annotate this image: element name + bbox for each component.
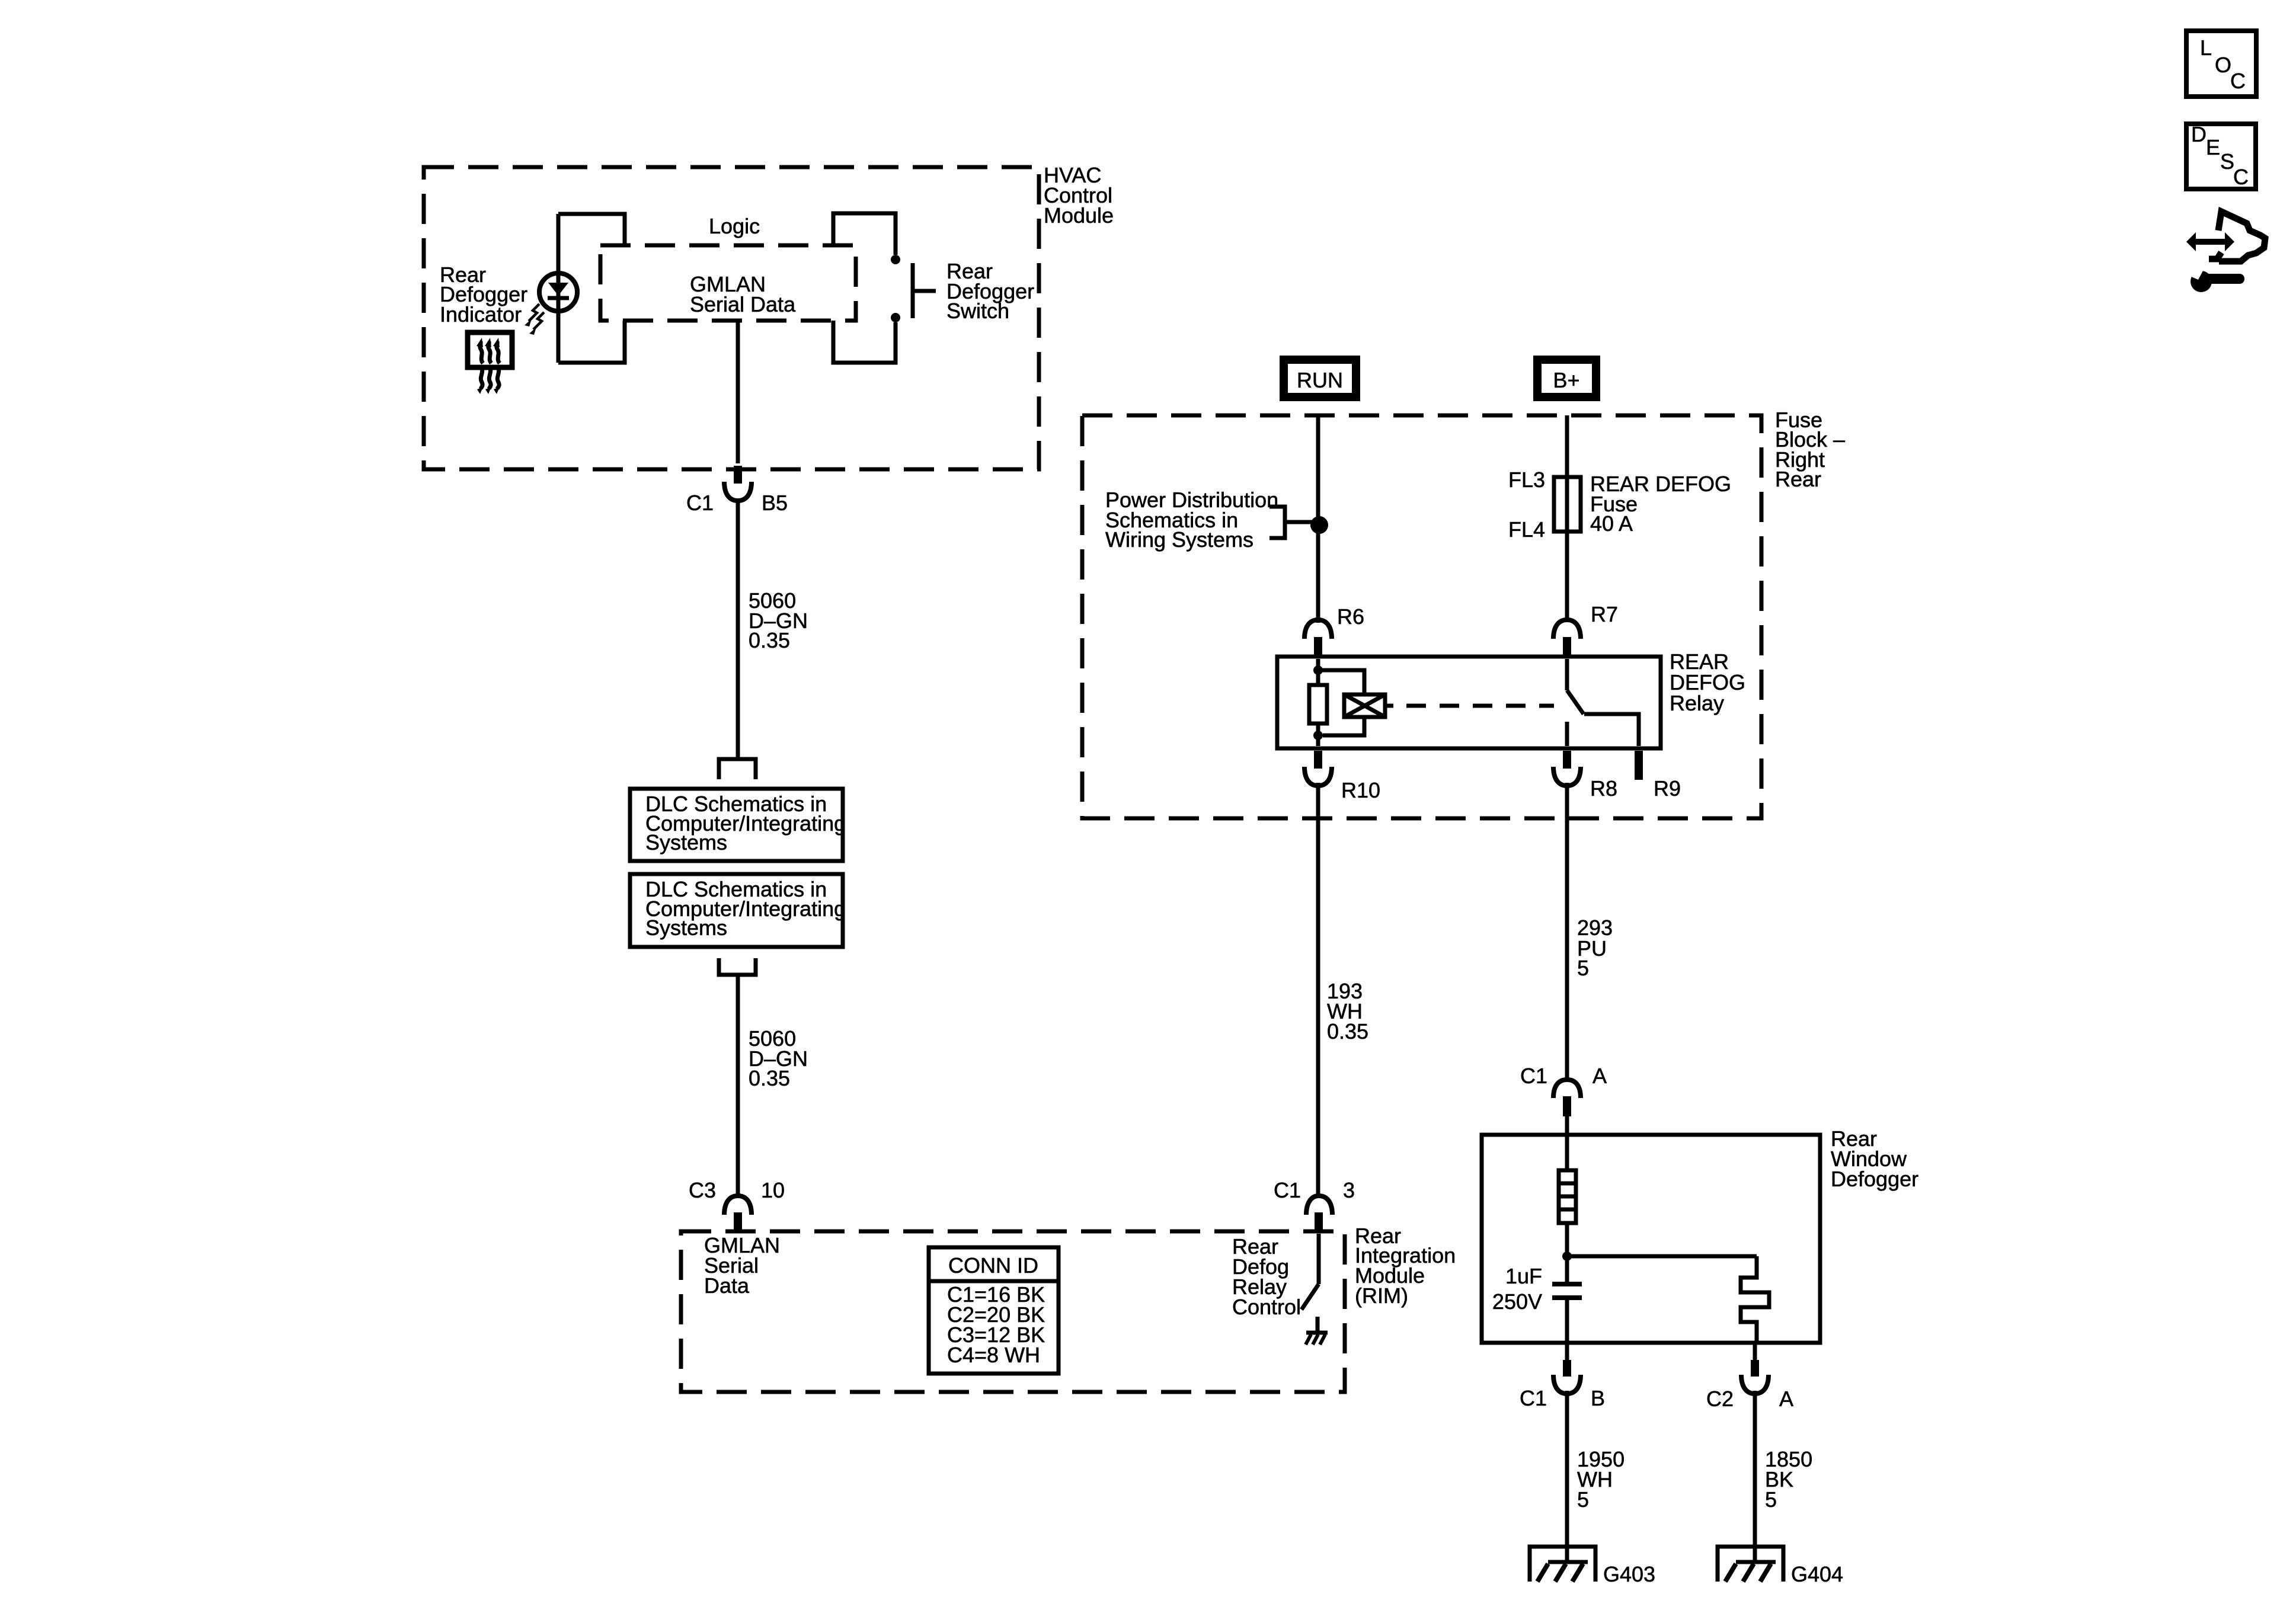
svg-text:10: 10 (761, 1178, 785, 1202)
svg-text:D: D (2191, 122, 2207, 146)
svg-text:Switch: Switch (946, 299, 1009, 323)
svg-text:0.35: 0.35 (1327, 1019, 1368, 1044)
svg-text:Systems: Systems (645, 916, 727, 940)
svg-text:R6: R6 (1337, 604, 1364, 629)
svg-text:5: 5 (1577, 1487, 1589, 1512)
svg-text:C1: C1 (686, 491, 714, 515)
svg-text:RUN: RUN (1297, 368, 1343, 392)
svg-text:A: A (1593, 1064, 1607, 1088)
svg-text:FL4: FL4 (1508, 517, 1545, 542)
svg-text:C4=8 WH: C4=8 WH (947, 1343, 1040, 1367)
svg-text:Data: Data (704, 1273, 750, 1298)
svg-text:1uF: 1uF (1505, 1264, 1542, 1288)
svg-text:Systems: Systems (645, 830, 727, 854)
svg-text:FL3: FL3 (1508, 468, 1545, 492)
svg-text:B+: B+ (1553, 368, 1579, 392)
svg-text:E: E (2206, 135, 2220, 159)
svg-text:B: B (1591, 1386, 1605, 1410)
svg-text:Logic: Logic (709, 214, 760, 238)
svg-text:0.35: 0.35 (749, 1066, 790, 1090)
svg-text:R8: R8 (1590, 776, 1617, 801)
svg-text:Defogger: Defogger (1831, 1167, 1918, 1191)
svg-text:C: C (2230, 69, 2246, 93)
svg-text:Module: Module (1044, 203, 1114, 228)
svg-text:R9: R9 (1654, 776, 1681, 801)
svg-text:L: L (2200, 36, 2212, 60)
svg-text:40 A: 40 A (1590, 511, 1633, 536)
svg-text:Relay: Relay (1670, 691, 1724, 715)
svg-text:C1: C1 (1520, 1064, 1547, 1088)
svg-text:C1: C1 (1520, 1386, 1547, 1410)
svg-text:O: O (2215, 53, 2231, 77)
svg-text:(RIM): (RIM) (1355, 1283, 1408, 1308)
svg-text:Serial Data: Serial Data (690, 292, 796, 316)
svg-text:5: 5 (1765, 1487, 1777, 1512)
svg-text:Rear: Rear (1775, 467, 1821, 491)
svg-text:C3: C3 (689, 1178, 716, 1202)
svg-text:S: S (2220, 149, 2234, 174)
svg-text:Wiring Systems: Wiring Systems (1105, 527, 1253, 552)
svg-text:250V: 250V (1492, 1289, 1542, 1314)
svg-text:R7: R7 (1591, 602, 1618, 626)
svg-text:C2: C2 (1706, 1387, 1734, 1411)
svg-text:CONN ID: CONN ID (948, 1253, 1038, 1278)
svg-text:B5: B5 (762, 491, 788, 515)
svg-text:R10: R10 (1341, 778, 1380, 802)
svg-text:0.35: 0.35 (749, 628, 790, 652)
svg-text:G404: G404 (1791, 1562, 1843, 1586)
svg-text:5: 5 (1577, 956, 1589, 980)
svg-text:C: C (2233, 165, 2249, 189)
svg-text:C1: C1 (1274, 1178, 1301, 1202)
svg-text:Indicator: Indicator (440, 302, 522, 327)
svg-text:A: A (1779, 1387, 1793, 1411)
svg-text:Control: Control (1232, 1295, 1301, 1319)
svg-text:G403: G403 (1603, 1562, 1655, 1586)
svg-text:3: 3 (1343, 1178, 1355, 1202)
